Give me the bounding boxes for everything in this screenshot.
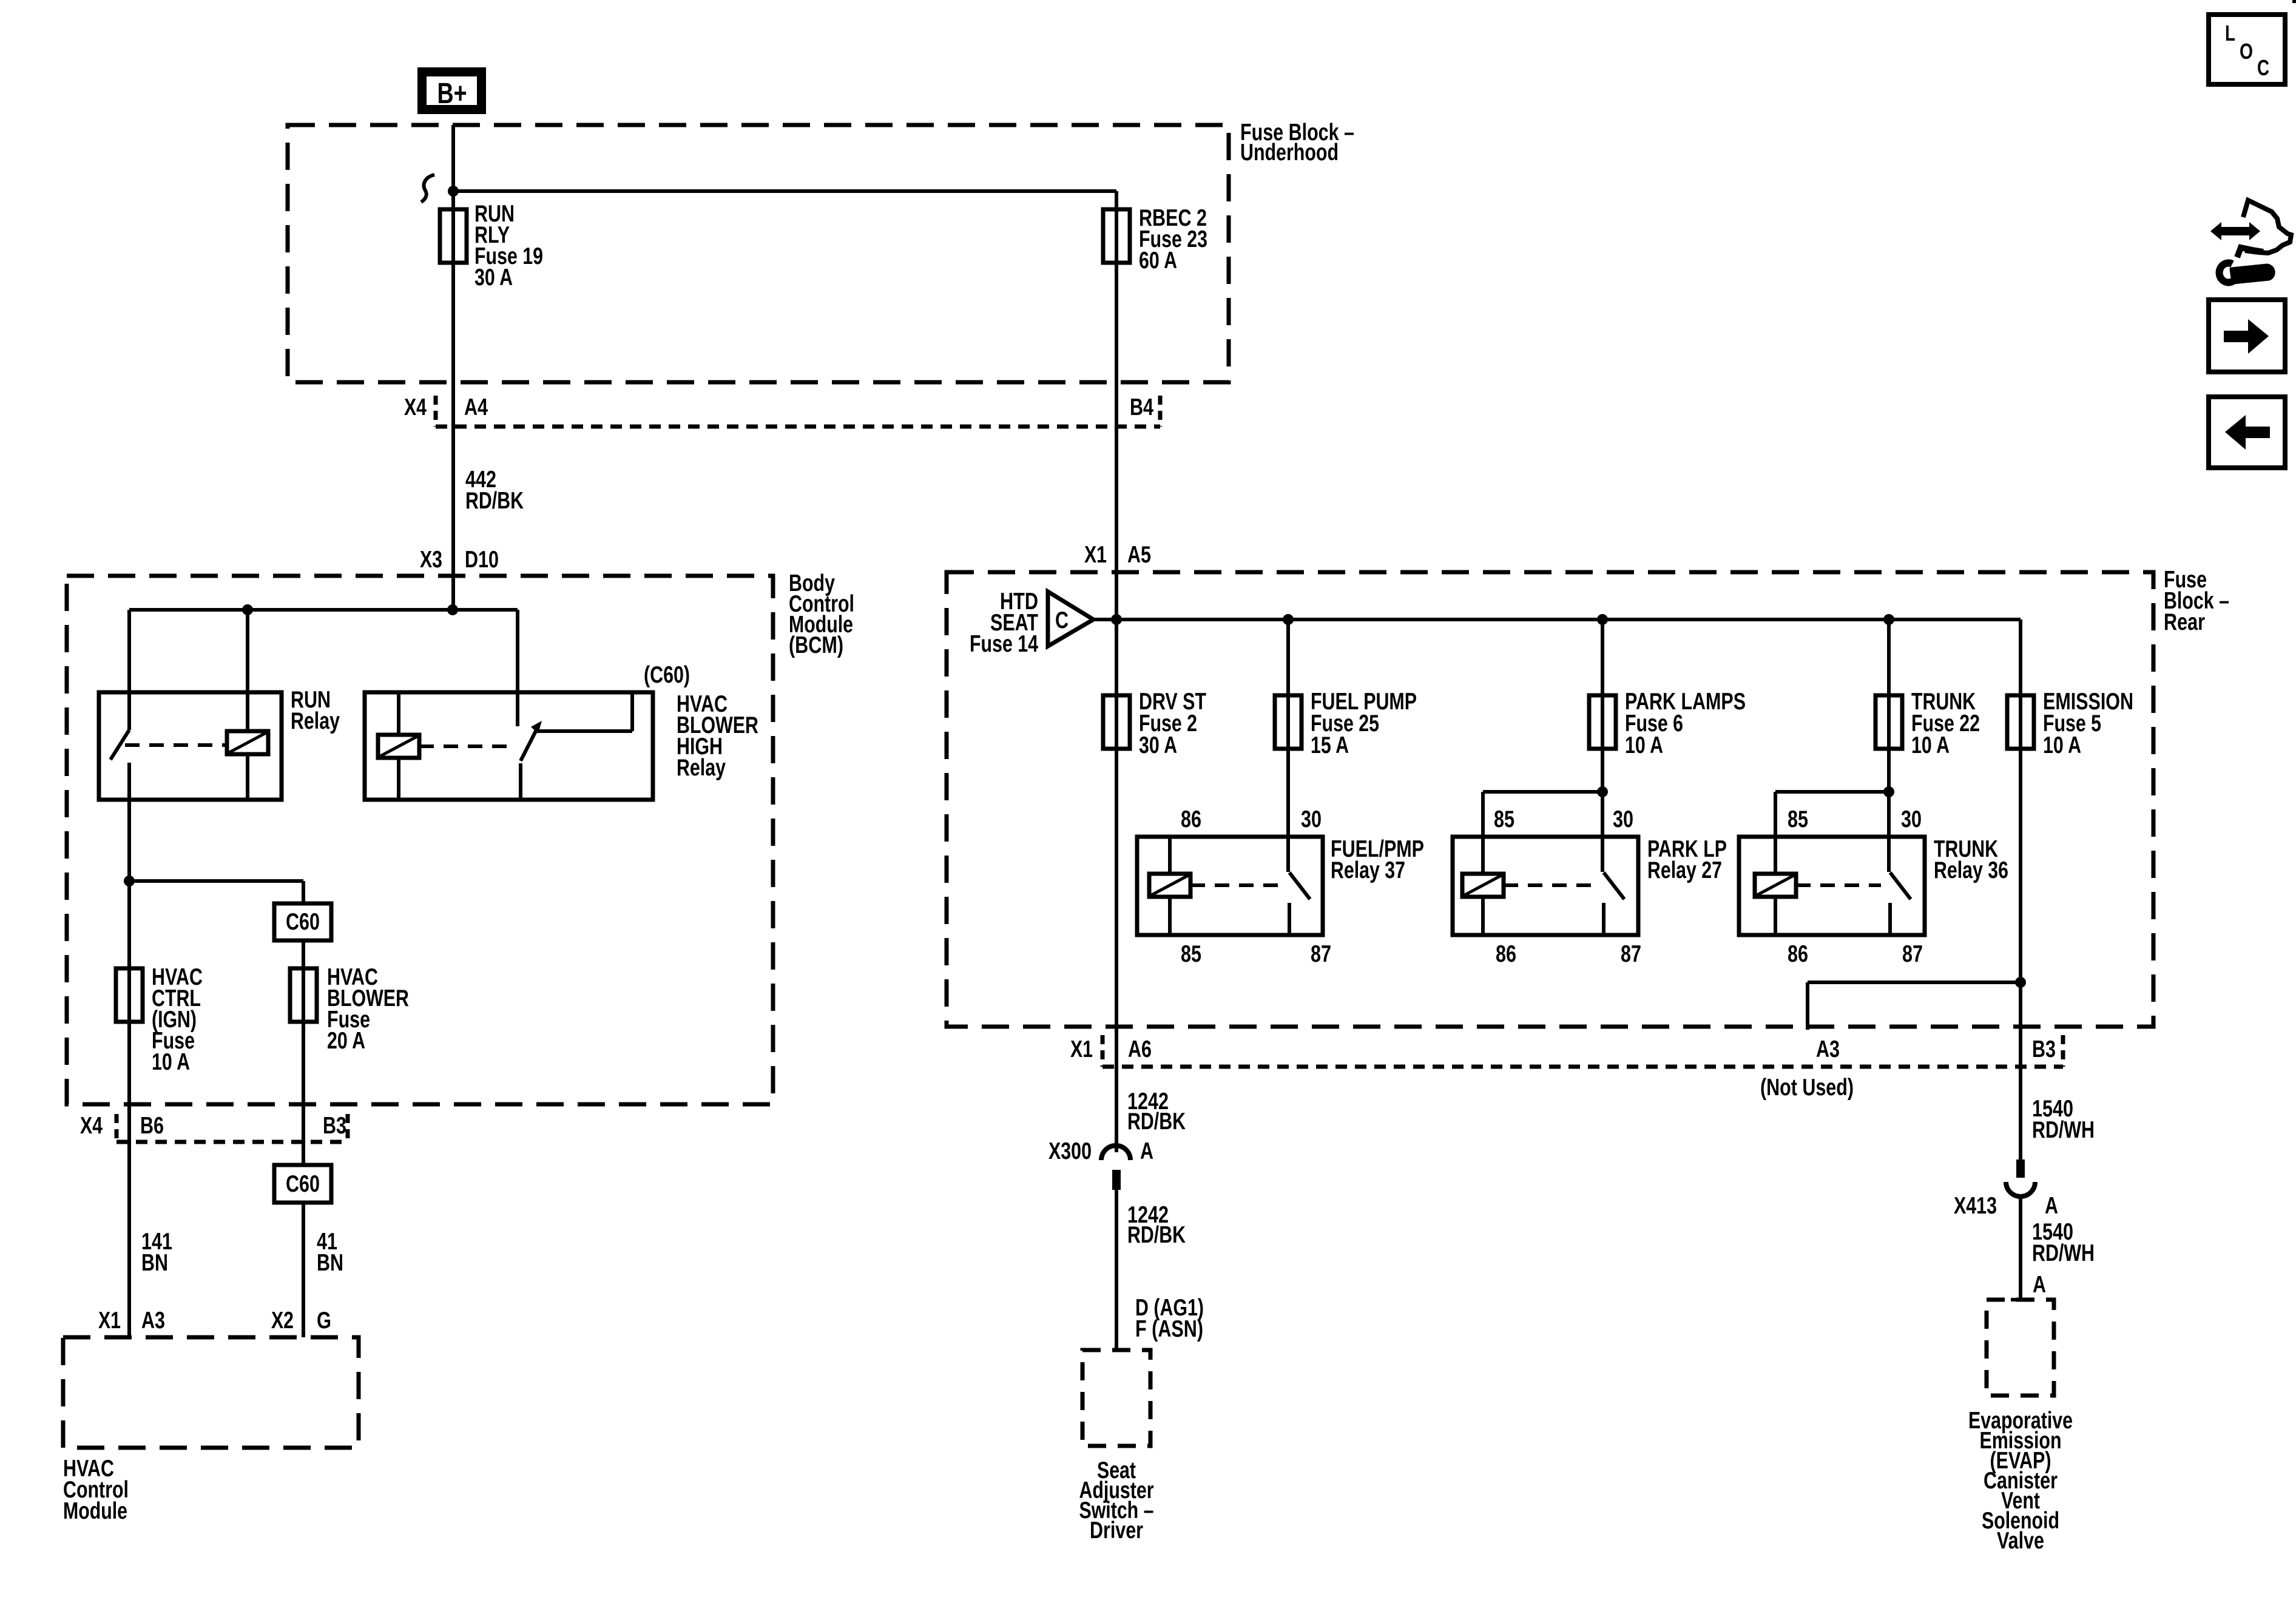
svg-text:RD/BK: RD/BK <box>465 488 524 514</box>
svg-text:87: 87 <box>1902 941 1923 967</box>
svg-text:B4: B4 <box>1130 394 1153 420</box>
svg-text:C60: C60 <box>286 1171 320 1197</box>
svg-text:Fuse 14: Fuse 14 <box>970 631 1038 657</box>
svg-text:A3: A3 <box>141 1308 165 1334</box>
connector C60 lower box <box>274 1165 331 1203</box>
corner mark <box>2292 0 2296 3</box>
HVAC blower high relay box <box>365 692 653 800</box>
svg-text:RD/WH: RD/WH <box>2032 1117 2095 1143</box>
svg-text:10 A: 10 A <box>1911 732 1950 758</box>
junction trunk 85 jog <box>1883 786 1894 797</box>
connector C60 upper box <box>274 903 331 940</box>
RUN relay output / HVAC CTRL fuse wire to HVAC module X1-A3 <box>127 763 131 1337</box>
FUEL PUMP fuse wire to relay 37 pin 30 <box>1286 619 1290 872</box>
svg-text:A5: A5 <box>1127 542 1151 568</box>
body control module (BCM) dashed box <box>67 576 773 1104</box>
junction park 85 jog <box>1597 786 1608 797</box>
svg-text:(C60): (C60) <box>644 662 690 688</box>
fuse FUEL PUMP Fuse 25 15A <box>1275 695 1302 749</box>
jog wire to A3 not used <box>1808 981 2021 984</box>
PARK LP relay switch arm <box>1604 873 1624 899</box>
junction D10 bus <box>447 604 458 615</box>
svg-text:A6: A6 <box>1128 1036 1152 1062</box>
seat adjuster switch dashed box <box>1082 1350 1150 1446</box>
svg-text:30: 30 <box>1301 806 1322 832</box>
svg-text:RD/WH: RD/WH <box>2032 1240 2095 1266</box>
RUN relay box <box>99 692 282 800</box>
fuse DRV ST Fuse 2 30A <box>1103 695 1130 749</box>
icon hand with double arrow and wrench <box>2210 222 2260 240</box>
TRUNK relay pin 87 stub <box>1888 903 1892 935</box>
junction C60 branch <box>124 876 135 886</box>
icon LOC box <box>2209 15 2285 84</box>
HVAC relay switch lower stub <box>519 763 522 800</box>
splice hook at B+ junction <box>421 175 434 202</box>
fuse EMISSION Fuse 5 10A <box>2007 695 2034 749</box>
FUEL/PMP relay switch arm <box>1289 873 1310 899</box>
svg-text:Underhood: Underhood <box>1240 140 1339 166</box>
svg-text:30: 30 <box>1613 806 1633 832</box>
junction RUN relay coil branch <box>242 604 253 615</box>
svg-text:X300: X300 <box>1048 1138 1092 1164</box>
svg-text:30 A: 30 A <box>1139 732 1177 758</box>
FUEL/PMP relay coil <box>1149 874 1190 897</box>
junction fuel pump branch <box>1283 614 1294 625</box>
svg-text:L: L <box>2225 21 2235 46</box>
RUN relay coil <box>227 731 268 754</box>
connector bracket B4 <box>1158 396 1163 427</box>
svg-text:BN: BN <box>141 1250 168 1276</box>
TRUNK relay switch arm <box>1890 873 1911 899</box>
HVAC relay switch input wire <box>516 610 519 726</box>
EVAP valve terminal bar <box>2011 1298 2030 1301</box>
svg-text:D10: D10 <box>465 547 499 573</box>
connector bracket X4 lower <box>115 1114 119 1142</box>
icon left arrow box <box>2209 397 2285 468</box>
svg-text:Relay 36: Relay 36 <box>1934 857 2008 883</box>
svg-text:10 A: 10 A <box>152 1049 190 1075</box>
svg-text:X3: X3 <box>420 547 442 573</box>
FUEL/PMP relay coil upper wire <box>1168 837 1172 874</box>
svg-text:Driver: Driver <box>1090 1517 1143 1544</box>
BCM internal bus <box>129 608 518 612</box>
svg-text:X413: X413 <box>1954 1193 1997 1219</box>
svg-text:B3: B3 <box>323 1113 346 1139</box>
svg-text:30: 30 <box>1901 806 1922 832</box>
PARK relay coil lower wire <box>1481 897 1485 935</box>
TRUNK relay coil lower wire <box>1774 897 1777 935</box>
svg-text:60 A: 60 A <box>1139 248 1177 274</box>
svg-text:10 A: 10 A <box>1625 732 1663 758</box>
svg-text:C: C <box>2257 55 2269 80</box>
HVAC relay coil lower wire <box>397 758 400 800</box>
fuse block underhood dashed box <box>288 125 1229 382</box>
DRV ST fuse wire to X300 <box>1115 619 1118 1152</box>
svg-text:O: O <box>2240 39 2253 64</box>
RUN relay coil upper wire <box>246 610 249 731</box>
svg-text:X2: X2 <box>271 1308 294 1334</box>
FUEL/PMP relay actuator dashed link <box>1190 883 1281 887</box>
svg-text:A3: A3 <box>1816 1036 1840 1062</box>
HVAC relay switch output horizontal <box>538 729 632 733</box>
battery B+ box <box>417 67 486 114</box>
RUN relay coil lower wire <box>246 754 249 800</box>
svg-text:C: C <box>1055 607 1069 633</box>
svg-text:Rear: Rear <box>2164 609 2205 635</box>
connector X1-A6/B3 dashed line <box>1102 1065 2063 1069</box>
svg-text:X1: X1 <box>1084 542 1107 568</box>
svg-text:85: 85 <box>1181 941 1201 967</box>
svg-text:X4: X4 <box>80 1113 103 1139</box>
TRUNK relay 36 box <box>1739 837 1925 935</box>
wire B+ to BCM D10 <box>451 125 455 610</box>
wire RBEC fuse to rear fuse block A5 <box>1115 191 1118 619</box>
junction A3 jog <box>2015 977 2026 988</box>
svg-text:30 A: 30 A <box>474 265 513 291</box>
fuse block rear dashed box <box>947 572 2153 1027</box>
svg-text:15 A: 15 A <box>1311 732 1349 758</box>
A3 stub wire <box>1806 982 1809 1030</box>
PARK relay pin 85 jog horizontal <box>1483 790 1602 794</box>
PARK LP relay coil <box>1462 874 1504 897</box>
svg-text:C60: C60 <box>286 909 320 935</box>
FUEL/PMP relay 37 box <box>1137 837 1323 935</box>
connector bracket B3 rear <box>2061 1035 2065 1067</box>
TRUNK relay coil <box>1755 874 1796 897</box>
fuse RBEC 2 Fuse 23 60A <box>1103 209 1130 263</box>
PARK relay coil upper wire <box>1481 792 1485 874</box>
junction park lamps branch <box>1597 614 1608 625</box>
connector X413 symbol <box>2016 1160 2025 1178</box>
TRUNK relay coil upper wire <box>1774 792 1777 874</box>
HVAC control module dashed box <box>63 1337 359 1448</box>
svg-text:F (ASN): F (ASN) <box>1135 1316 1203 1342</box>
rear fuse block bus <box>1093 618 2021 621</box>
svg-text:Relay 37: Relay 37 <box>1331 857 1405 883</box>
fuse HVAC BLOWER 20A <box>290 968 317 1022</box>
fuse HVAC CTRL (IGN) 10A <box>116 968 143 1022</box>
icon right arrow box <box>2209 300 2285 372</box>
TRUNK relay pin 85 jog horizontal <box>1775 790 1889 794</box>
PARK LP relay pin 87 stub <box>1602 903 1606 935</box>
fuse PARK LAMPS Fuse 6 10A <box>1589 695 1616 749</box>
svg-text:A: A <box>1140 1138 1153 1164</box>
HVAC relay switch arm <box>521 727 538 761</box>
svg-text:Relay: Relay <box>291 708 340 734</box>
svg-text:X4: X4 <box>404 394 427 420</box>
TRUNK fuse wire to relay 36 pin 30 <box>1887 619 1891 872</box>
wire X413 to EVAP valve <box>2019 1198 2022 1300</box>
HTD SEAT Fuse 14 triangle connector <box>1048 592 1093 646</box>
svg-text:RD/BK: RD/BK <box>1127 1109 1186 1135</box>
svg-text:87: 87 <box>1621 941 1641 967</box>
RUN relay switch input wire <box>127 610 131 730</box>
svg-text:(BCM): (BCM) <box>789 632 843 658</box>
svg-text:86: 86 <box>1181 806 1201 832</box>
junction B+ bus <box>448 186 459 197</box>
svg-text:Relay 27: Relay 27 <box>1647 857 1722 883</box>
FUEL/PMP relay pin 87 stub <box>1288 903 1291 935</box>
svg-text:20 A: 20 A <box>327 1028 365 1054</box>
svg-text:X1: X1 <box>98 1308 121 1334</box>
svg-text:Relay: Relay <box>677 755 726 781</box>
RUN relay actuator dashed link <box>125 743 227 747</box>
connector X4-B6/B3 dashed line <box>116 1140 348 1144</box>
fuse RUN RLY Fuse 19 30A <box>440 209 467 263</box>
connector bracket B3 lower <box>346 1114 350 1142</box>
svg-text:BN: BN <box>317 1250 343 1276</box>
connector X300 symbol <box>1101 1146 1130 1160</box>
svg-text:Module: Module <box>63 1498 127 1524</box>
HVAC BLOWER fuse wire to HVAC module X2-G <box>302 881 305 1337</box>
TRUNK relay actuator dashed link <box>1796 883 1881 887</box>
svg-text:86: 86 <box>1496 941 1516 967</box>
connector bracket X1 rear <box>1101 1035 1105 1067</box>
HVAC relay switch output vertical <box>630 692 634 731</box>
PARK LAMPS fuse wire to relay 27 pin 30 <box>1601 619 1604 872</box>
HVAC relay coil <box>378 735 419 758</box>
svg-text:87: 87 <box>1311 941 1331 967</box>
svg-text:A4: A4 <box>464 394 488 420</box>
EVAP canister vent solenoid valve dashed box <box>1987 1300 2054 1396</box>
svg-text:B3: B3 <box>2032 1036 2056 1062</box>
branch wire to C60 connector <box>129 879 303 883</box>
svg-text:A: A <box>2045 1193 2058 1219</box>
svg-text:A: A <box>2033 1272 2046 1298</box>
svg-text:G: G <box>317 1308 331 1334</box>
svg-text:85: 85 <box>1788 806 1808 832</box>
wire top jog to RBEC fuse <box>453 189 1116 193</box>
svg-text:X1: X1 <box>1070 1036 1093 1062</box>
svg-text:Valve: Valve <box>1997 1528 2044 1554</box>
FUEL/PMP relay coil lower wire <box>1168 897 1172 935</box>
HVAC relay coil upper wire <box>397 692 400 735</box>
EMISSION fuse wire to X413 <box>2019 619 2022 1160</box>
junction rear bus A5 <box>1111 614 1122 625</box>
PARK LP relay actuator dashed link <box>1504 883 1595 887</box>
svg-text:RD/BK: RD/BK <box>1127 1222 1186 1248</box>
junction trunk branch <box>1883 614 1894 625</box>
HVAC relay switch arm arrowhead <box>531 721 542 734</box>
RUN relay switch arm <box>110 730 129 760</box>
svg-text:B+: B+ <box>437 78 467 110</box>
svg-text:86: 86 <box>1788 941 1808 967</box>
svg-text:B6: B6 <box>140 1113 164 1139</box>
connector bracket X4 <box>434 396 438 427</box>
connector X4-A4/B4 dashed line <box>436 425 1160 429</box>
wire X300 to seat adjuster switch <box>1115 1190 1118 1350</box>
PARK LP relay 27 box <box>1453 837 1638 935</box>
HVAC relay actuator dashed link <box>419 744 512 748</box>
svg-text:10 A: 10 A <box>2043 732 2081 758</box>
svg-text:85: 85 <box>1494 806 1514 832</box>
svg-text:(Not Used): (Not Used) <box>1760 1075 1854 1101</box>
fuse TRUNK Fuse 22 10A <box>1876 695 1902 749</box>
